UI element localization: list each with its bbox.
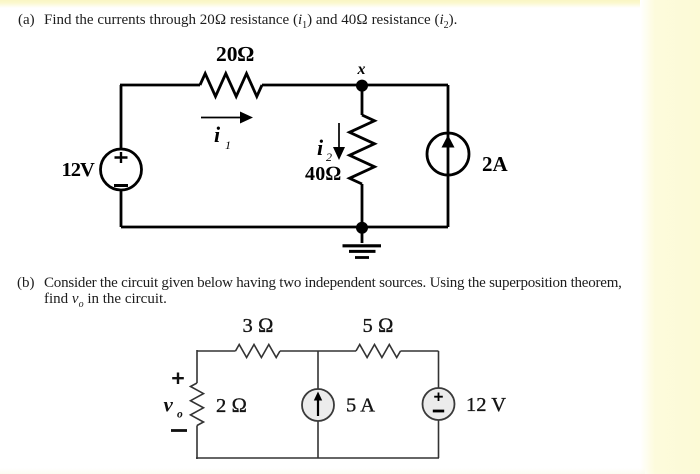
label 20Ω — [216, 42, 254, 66]
wire: (a) middle vertical bottom — [361, 184, 364, 227]
svg-text:i: i — [317, 135, 324, 160]
svg-text:2A: 2A — [482, 152, 509, 176]
current source 5A (b) — [302, 389, 334, 421]
resistor 5Ω (b) — [356, 345, 401, 358]
label 5Ω — [362, 315, 393, 337]
svg-text:i: i — [214, 122, 221, 147]
wire: (b) left vertical top — [196, 350, 198, 383]
resistor 3Ω (b) — [236, 345, 281, 358]
svg-text:x: x — [357, 61, 366, 78]
svg-text:2: 2 — [326, 150, 332, 164]
label vo minus — [171, 429, 187, 432]
ground — [343, 232, 382, 258]
wire: (b) top left segment — [197, 350, 236, 352]
label vo plus — [172, 373, 184, 385]
label vo — [164, 393, 184, 421]
svg-text:5 A: 5 A — [346, 395, 375, 417]
svg-text:5 Ω: 5 Ω — [362, 315, 393, 337]
label 3Ω — [242, 315, 273, 337]
resistor 2Ω (b) — [191, 383, 204, 426]
svg-text:20Ω: 20Ω — [216, 42, 254, 66]
problem text (a) — [18, 12, 35, 29]
svg-text:o: o — [177, 409, 183, 421]
current arrow i1 — [201, 112, 253, 124]
svg-text:2 Ω: 2 Ω — [216, 395, 247, 417]
problem text (b) line 2 — [44, 291, 167, 310]
bottom node dot (a) — [356, 222, 368, 234]
svg-text:1: 1 — [225, 138, 231, 152]
voltage source 12V (b) — [423, 388, 455, 420]
wire: (b) left vertical bottom — [196, 426, 198, 460]
svg-text:3 Ω: 3 Ω — [242, 315, 273, 337]
top yellow strip — [0, 0, 700, 8]
current arrow i2 — [333, 123, 345, 160]
label 40Ω — [305, 163, 341, 185]
wire: (b) top middle segment — [280, 350, 356, 352]
svg-text:v: v — [164, 393, 174, 417]
svg-text:12 V: 12 V — [466, 394, 506, 416]
label i2 — [317, 135, 332, 164]
bottom faint strip — [0, 468, 645, 474]
svg-text:40Ω: 40Ω — [305, 163, 341, 185]
problem text (b) line 1 — [17, 275, 35, 292]
label 2A — [482, 152, 509, 176]
right yellow panel — [640, 0, 700, 474]
wire: (b) right vertical — [438, 351, 440, 458]
resistor 20Ω (a) — [200, 74, 262, 97]
current source 2A (a) — [427, 133, 469, 175]
wire: (a) top left segment — [120, 84, 200, 87]
voltage source 12V (a) — [101, 149, 142, 190]
label 2Ω — [216, 395, 247, 417]
resistor 40Ω (a) — [350, 115, 375, 184]
wire: (a) middle vertical top — [361, 85, 364, 115]
wire: (a) left vertical bottom — [120, 190, 123, 227]
wire: (b) top right segment — [401, 350, 439, 352]
node x label — [357, 61, 366, 78]
wire: (b) middle vertical — [317, 351, 319, 458]
wire: (a) top right segment — [262, 84, 448, 87]
wire: (b) bottom — [196, 457, 439, 459]
svg-text:12V: 12V — [62, 159, 96, 181]
label 12V (b) — [466, 394, 506, 416]
label i1 — [214, 122, 231, 152]
label 5A — [346, 395, 375, 417]
node x dot — [356, 80, 368, 92]
label 12V — [62, 159, 96, 181]
wire: (a) right vertical — [447, 85, 450, 227]
wire: (a) bottom — [121, 226, 448, 229]
wire: (a) left vertical top — [120, 85, 123, 149]
